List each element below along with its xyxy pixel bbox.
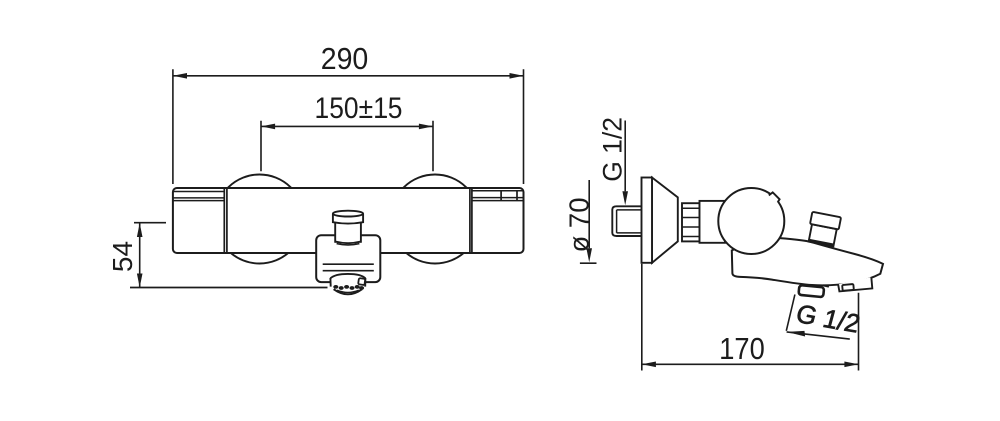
right cap separation bbox=[470, 189, 472, 253]
control knob ball bbox=[718, 188, 784, 254]
dim 150 line bbox=[261, 125, 433, 127]
knob stem cap bbox=[333, 211, 363, 224]
svg-text:290: 290 bbox=[321, 42, 369, 76]
right cap band lines bbox=[472, 191, 523, 201]
handshower outlet bbox=[330, 274, 365, 297]
tub outlet fitting bbox=[798, 285, 824, 297]
svg-text:54: 54 bbox=[107, 241, 138, 272]
knob stem body bbox=[335, 223, 361, 245]
right valve dome bbox=[391, 175, 480, 264]
left cap separation bbox=[224, 189, 227, 253]
faucet body bar bbox=[173, 188, 524, 253]
G12 top leader bbox=[624, 121, 626, 192]
spout body bbox=[732, 237, 883, 286]
mixer plate bbox=[316, 235, 380, 282]
G12 bottom ext line bbox=[786, 295, 795, 331]
left cap band lines bbox=[173, 192, 224, 201]
dim 170 extension lines bbox=[642, 264, 859, 371]
svg-text:170: 170 bbox=[719, 332, 765, 366]
dim 290 extension lines bbox=[173, 69, 524, 184]
diverter knob side bbox=[807, 212, 841, 247]
dim 170 line bbox=[642, 363, 859, 365]
left valve dome bbox=[215, 175, 304, 264]
valve housing bbox=[700, 201, 726, 243]
coupling ring bbox=[682, 203, 700, 241]
dim 54 top tick bbox=[134, 222, 166, 224]
svg-text:ø 70: ø 70 bbox=[564, 197, 595, 252]
plate grooves bbox=[323, 264, 374, 271]
spout step bbox=[823, 285, 829, 286]
escutcheon flange bbox=[642, 178, 653, 263]
ball notch bbox=[769, 192, 780, 202]
escutcheon cone bbox=[652, 178, 678, 263]
spout base reference line bbox=[130, 287, 328, 289]
svg-text:G 1/2: G 1/2 bbox=[597, 117, 627, 182]
G12 bottom leader bbox=[787, 332, 850, 339]
shower hose fitting bbox=[838, 277, 872, 291]
dim 290 line bbox=[173, 75, 524, 77]
wall nipple thread bbox=[612, 206, 642, 236]
dia70 dim line bbox=[588, 180, 590, 248]
right cap band ticks bbox=[501, 191, 517, 201]
dim 150 extension lines bbox=[261, 121, 433, 172]
dia70 tick bbox=[580, 262, 597, 264]
dim 54 line bbox=[139, 223, 141, 288]
svg-text:150±15: 150±15 bbox=[315, 90, 403, 124]
